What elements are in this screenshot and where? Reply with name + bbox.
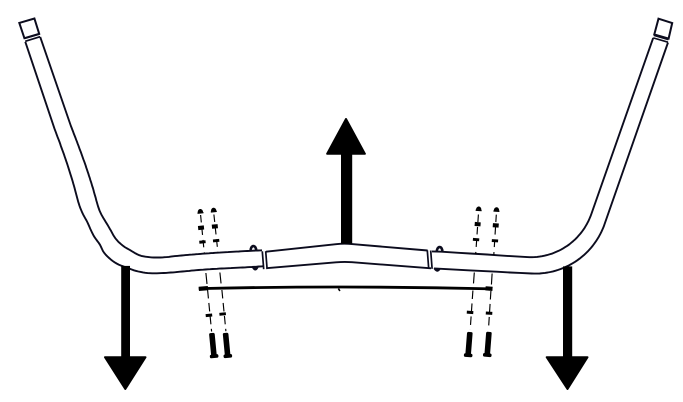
screw C axis dash (upper) (476, 215, 479, 255)
screw D nut (493, 223, 499, 228)
screw A nut (198, 225, 204, 230)
right clamp eye bolt head (437, 247, 443, 252)
screw B head (210, 207, 216, 211)
left clamp band (262, 251, 267, 269)
center crossbar top edge (266, 244, 428, 252)
right arm end cap (654, 19, 672, 39)
screw B axis dash (lower) (222, 290, 226, 331)
right clamp bolt lower nub (434, 269, 440, 271)
left clamp bolt lower nub (252, 267, 258, 270)
screw A head (197, 209, 203, 213)
screw D washer (492, 239, 498, 242)
right horizontal bottom edge, right bend, right arm outer edge (wire) (434, 43, 668, 274)
left arm cap band (25, 34, 41, 41)
screw C axis dash (middle) (473, 273, 474, 287)
center up arrow (327, 119, 365, 244)
lower mounting plate (199, 287, 493, 289)
screw D axis dash (middle) (490, 274, 493, 287)
screw A lower washer (206, 313, 213, 317)
screw D axis dash (upper) (494, 215, 497, 255)
screw C lower washer (467, 311, 474, 314)
screw C nut (475, 222, 481, 227)
screw A axis dash (lower) (208, 290, 212, 332)
screw B washer (213, 239, 220, 242)
right arm cap band (653, 35, 668, 42)
plate center tick (338, 289, 340, 291)
screw C bolt (464, 332, 475, 358)
screw A washer (199, 240, 206, 243)
screw A bolt (208, 333, 219, 359)
screw B nut (212, 224, 218, 229)
lower mounting plate right end cap (486, 286, 493, 291)
left down arrow (105, 266, 146, 389)
center crossbar bottom edge (266, 262, 431, 268)
screw A axis dash (middle) (206, 273, 207, 286)
screw D head (493, 207, 499, 211)
screw B bolt (221, 332, 232, 358)
left arm outer edge, left bend, left horizontal bottom edge (wire) (25, 42, 263, 273)
right clamp band (427, 250, 432, 268)
screw B axis dash (middle) (220, 273, 221, 286)
screw D bolt (483, 332, 494, 358)
screw A axis dash (upper) (201, 215, 205, 253)
screw C head (476, 206, 482, 210)
screw C washer (473, 238, 479, 241)
screw B axis dash (upper) (214, 215, 218, 253)
screw B lower washer (219, 312, 226, 316)
right horizontal top edge, right bend, right arm inner edge (wire) (432, 38, 653, 257)
lower mounting plate left end cap (199, 286, 208, 291)
screw D axis dash (lower) (489, 291, 491, 329)
screw C axis dash (lower) (470, 291, 473, 330)
left arm inner edge, left bend, left horizontal top edge (wire) (40, 37, 262, 258)
screw D lower washer (486, 311, 493, 314)
left clamp eye bolt head (251, 246, 257, 251)
right down arrow (547, 266, 588, 389)
left arm end cap (19, 19, 39, 39)
